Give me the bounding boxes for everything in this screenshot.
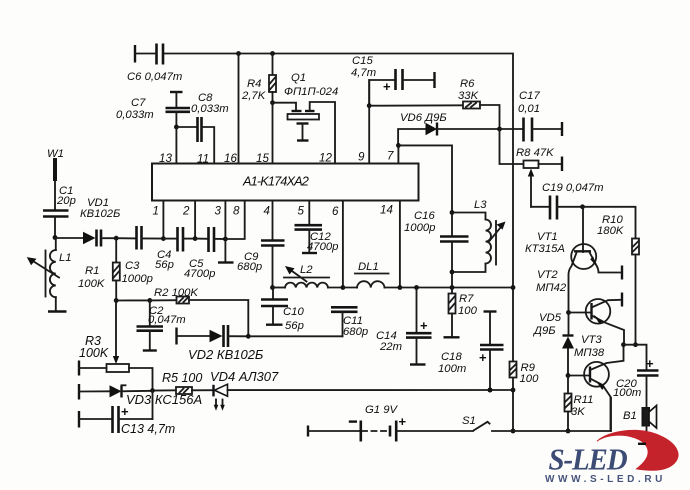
svg-text:1000p: 1000p <box>404 222 435 234</box>
LED VD4 <box>210 369 513 411</box>
capacitor C2 <box>137 300 186 350</box>
svg-text:ФП1П-024: ФП1П-024 <box>284 86 338 98</box>
inductor L2 <box>273 264 343 288</box>
capacitor C9 <box>237 201 285 290</box>
capacitor C14 <box>376 288 432 365</box>
resistor R5 <box>153 371 214 394</box>
capacitor C10 <box>261 288 304 333</box>
svg-text:100K: 100K <box>79 346 109 360</box>
svg-text:16: 16 <box>224 152 237 165</box>
svg-text:33K: 33K <box>458 90 479 102</box>
svg-text:C16: C16 <box>414 210 435 222</box>
svg-text:0,047m: 0,047m <box>148 314 186 326</box>
svg-text:L1: L1 <box>59 252 72 264</box>
capacitor C18 <box>438 312 504 393</box>
resistor R11 <box>565 376 594 434</box>
capacitor C19 <box>531 182 604 220</box>
svg-text:180K: 180K <box>597 225 624 237</box>
battery G1 <box>308 404 473 442</box>
capacitor C16 <box>404 210 469 288</box>
svg-text:C17: C17 <box>519 90 540 102</box>
svg-text:R4: R4 <box>247 78 261 90</box>
svg-text:VD5: VD5 <box>539 312 562 324</box>
switch S1 <box>462 415 513 431</box>
wire top supply rail <box>164 51 515 433</box>
inductor L3 <box>452 199 506 272</box>
IC A1-K174XA2 <box>152 164 419 201</box>
svg-text:100m: 100m <box>613 387 641 399</box>
svg-text:Д9Б: Д9Б <box>532 325 556 337</box>
wire pin16 lead <box>238 54 240 164</box>
choke DL1 <box>343 261 400 288</box>
capacitor C12 <box>295 201 339 253</box>
antenna W1 <box>47 148 64 210</box>
potentiometer R3 <box>79 301 153 391</box>
potentiometer R8 <box>500 129 563 207</box>
transistor VT3 <box>568 334 626 431</box>
svg-text:C6 0,047m: C6 0,047m <box>127 71 182 83</box>
resistor R9 <box>510 362 540 386</box>
svg-text:56p: 56p <box>285 320 304 332</box>
svg-text:R7: R7 <box>459 293 474 305</box>
wire pin9 lead <box>367 80 372 164</box>
svg-text:+: + <box>121 404 129 419</box>
svg-text:22m: 22m <box>379 341 402 353</box>
wire pin2 lead <box>193 201 198 241</box>
svg-text:МП38: МП38 <box>574 347 605 359</box>
svg-text:R11: R11 <box>574 394 594 406</box>
svg-text:6: 6 <box>332 205 339 218</box>
capacitor C3 <box>116 226 163 285</box>
varicap VD2 <box>177 325 264 362</box>
svg-text:56p: 56p <box>155 259 174 271</box>
wire pin13 lead <box>175 127 177 164</box>
wire pin6 lead <box>341 201 346 290</box>
svg-text:VD4 АЛ307: VD4 АЛ307 <box>210 369 279 384</box>
svg-text:C18: C18 <box>441 351 462 363</box>
wire C18 node dot <box>488 388 493 393</box>
capacitor C8 <box>176 92 228 164</box>
svg-text:A1-K174XA2: A1-K174XA2 <box>242 174 309 189</box>
svg-text:680p: 680p <box>343 326 368 338</box>
wire middle rail <box>400 285 513 290</box>
capacitor C17 <box>500 90 563 142</box>
svg-text:VD2 КВ102Б: VD2 КВ102Б <box>188 347 264 362</box>
capacitor C11 <box>331 307 368 338</box>
resistor R2 <box>154 287 248 336</box>
capacitor C20 <box>613 345 659 407</box>
svg-text:КТ315А: КТ315А <box>525 243 565 255</box>
svg-text:G1 9V: G1 9V <box>365 404 398 416</box>
svg-text:+: + <box>383 79 391 94</box>
svg-text:R1: R1 <box>85 265 99 277</box>
wire pin7 link <box>396 143 452 213</box>
svg-text:11: 11 <box>197 153 209 166</box>
svg-text:3: 3 <box>215 205 222 218</box>
svg-text:R8 47K: R8 47K <box>516 147 554 159</box>
svg-text:C15: C15 <box>352 55 373 67</box>
diode VD6 <box>398 112 502 145</box>
svg-text:L2: L2 <box>300 264 313 276</box>
svg-text:R6: R6 <box>460 78 475 90</box>
svg-text:C7: C7 <box>131 97 146 109</box>
svg-text:+: + <box>646 356 654 371</box>
resistor R7 <box>444 288 478 338</box>
svg-text:C10: C10 <box>283 306 304 318</box>
svg-text:100: 100 <box>520 373 540 385</box>
svg-text:МП42: МП42 <box>536 282 567 294</box>
svg-text:+: + <box>420 318 428 333</box>
pin labels bottom <box>153 204 394 219</box>
logo S-LED <box>545 430 678 485</box>
capacitor C7 <box>116 92 190 129</box>
svg-text:R2 100K: R2 100K <box>154 287 198 299</box>
resistor R10 <box>583 207 640 347</box>
svg-text:VD6 Д9Б: VD6 Д9Б <box>400 112 447 124</box>
svg-text:8: 8 <box>233 205 240 218</box>
resistor R1 <box>78 236 120 303</box>
svg-text:DL1: DL1 <box>358 261 379 273</box>
svg-text:100K: 100K <box>78 278 105 290</box>
svg-text:WWW.S-LED.RU: WWW.S-LED.RU <box>545 474 666 485</box>
svg-text:1: 1 <box>153 205 159 218</box>
svg-text:2,7K: 2,7K <box>241 90 266 102</box>
diode VD5 <box>532 312 574 378</box>
wire pin14 lead <box>398 201 403 290</box>
svg-text:14: 14 <box>380 204 393 217</box>
resistor R4 <box>241 54 276 106</box>
svg-text:R5 100: R5 100 <box>162 371 202 385</box>
speaker B1 <box>623 406 657 446</box>
svg-text:VT1: VT1 <box>537 231 558 243</box>
svg-text:Q1: Q1 <box>291 72 306 84</box>
svg-text:КВ102Б: КВ102Б <box>80 208 120 220</box>
capacitor C4 <box>155 227 195 271</box>
capacitor C15 <box>351 55 435 106</box>
wire bottom rail <box>513 398 611 432</box>
transistor VT1 <box>525 207 622 313</box>
svg-text:4700p: 4700p <box>184 268 215 280</box>
svg-text:680p: 680p <box>237 261 262 273</box>
svg-text:4,7m: 4,7m <box>351 67 376 79</box>
svg-text:1000p: 1000p <box>122 273 153 285</box>
svg-text:S1: S1 <box>462 415 476 427</box>
node R1 bottom net <box>116 298 176 303</box>
pin labels top <box>159 150 394 166</box>
capacitor C13 <box>79 391 175 436</box>
svg-text:+: + <box>399 414 407 429</box>
svg-text:0,033m: 0,033m <box>191 103 229 115</box>
wire pin8 lead <box>225 201 244 239</box>
svg-text:100: 100 <box>458 305 478 317</box>
svg-text:2: 2 <box>182 205 190 218</box>
svg-text:15: 15 <box>256 152 269 165</box>
resistor R6 <box>369 78 499 129</box>
svg-text:100m: 100m <box>438 363 466 375</box>
capacitor C5 <box>184 227 225 280</box>
svg-text:12: 12 <box>319 152 332 165</box>
svg-text:4: 4 <box>264 205 271 218</box>
svg-text:13: 13 <box>159 152 172 165</box>
wire pin15 lead <box>272 103 274 164</box>
svg-text:20p: 20p <box>56 195 76 207</box>
svg-text:+: + <box>479 350 487 365</box>
inductor L1 <box>27 238 72 312</box>
wire pin1 lead <box>161 201 166 241</box>
zener VD3 <box>79 384 202 407</box>
svg-text:4700p: 4700p <box>307 241 338 253</box>
svg-text:0,01: 0,01 <box>518 103 540 115</box>
svg-text:B1: B1 <box>623 410 637 422</box>
svg-text:C3: C3 <box>125 260 140 272</box>
svg-text:C19 0,047m: C19 0,047m <box>542 182 604 194</box>
svg-text:S-LED: S-LED <box>549 443 628 477</box>
varicap VD1 <box>55 197 120 247</box>
filter Q1 <box>273 72 339 164</box>
svg-text:W1: W1 <box>47 148 64 160</box>
svg-text:C13 4,7m: C13 4,7m <box>121 422 175 436</box>
svg-text:7: 7 <box>387 150 394 163</box>
svg-text:VT2: VT2 <box>537 269 558 281</box>
svg-text:VT3: VT3 <box>581 334 602 346</box>
svg-text:5: 5 <box>298 205 305 218</box>
wire pin3 lead and stub <box>218 201 234 263</box>
capacitor C6 <box>127 44 182 84</box>
capacitor C1 <box>43 185 76 240</box>
transistor VT2 <box>536 269 624 345</box>
svg-text:3K: 3K <box>571 406 585 418</box>
svg-text:0,033m: 0,033m <box>116 109 154 121</box>
svg-text:L3: L3 <box>474 199 487 211</box>
svg-text:9: 9 <box>358 151 365 164</box>
wire varicap to C11 <box>248 335 342 337</box>
